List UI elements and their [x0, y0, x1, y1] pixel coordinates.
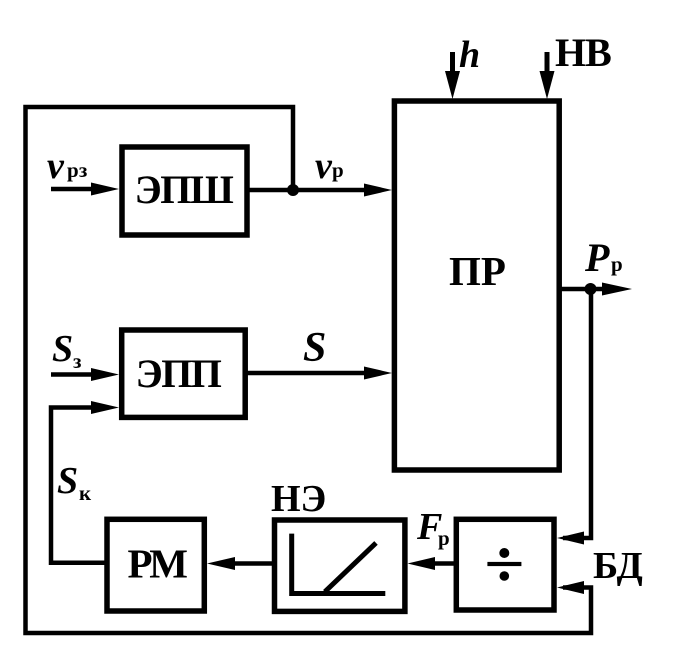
block U2 ЭПП — [122, 330, 246, 417]
wire S from ЭПП to ПР — [245, 367, 392, 380]
svg-text:P: P — [584, 235, 610, 280]
svg-text:v: v — [47, 145, 65, 187]
svg-text:p: p — [438, 526, 450, 550]
wire feedback loop vр to БД lower input — [26, 107, 592, 633]
svg-text:з: з — [73, 349, 81, 373]
label Fр — [416, 506, 450, 550]
junction node vр — [287, 184, 299, 196]
svg-text:S: S — [57, 460, 78, 502]
svg-text:ПР: ПР — [449, 248, 506, 294]
block U1 ЭПШ — [122, 147, 247, 235]
svg-text:S: S — [52, 328, 73, 370]
wire Pр down to БД upper input — [557, 289, 591, 545]
wire Sз input arrow — [51, 368, 119, 381]
svg-text:р: р — [611, 252, 623, 276]
svg-text:h: h — [459, 34, 480, 76]
block U6 БД divider — [456, 519, 554, 610]
svg-text:РМ: РМ — [128, 541, 188, 587]
svg-text:к: к — [79, 481, 92, 505]
svg-text:р: р — [332, 158, 344, 182]
label Sк — [57, 460, 92, 505]
wire Pр output with junction — [559, 283, 632, 296]
block U3 ПР — [394, 101, 559, 470]
wire vрз input arrow — [51, 183, 119, 196]
wire vр from ЭПШ to ПР with arrow — [247, 184, 392, 197]
svg-text:НЭ: НЭ — [271, 478, 326, 520]
block U5 НЭ nonlinear element — [275, 520, 405, 611]
label vр — [315, 145, 344, 187]
svg-text:S: S — [303, 325, 326, 371]
label Pр — [584, 235, 623, 280]
svg-text:ЭПШ: ЭПШ — [135, 167, 234, 212]
svg-text:ЭПП: ЭПП — [136, 351, 222, 396]
junction node Pр — [585, 283, 597, 295]
wire НЭ to РМ arrow — [207, 557, 272, 570]
label Sз — [52, 328, 81, 373]
label vрз — [47, 145, 87, 187]
svg-text:v: v — [315, 145, 333, 187]
svg-text:рз: рз — [67, 158, 87, 182]
wire НВ input arrow — [540, 52, 555, 99]
svg-text:БД: БД — [593, 545, 643, 587]
svg-text:НВ: НВ — [555, 30, 611, 75]
wire Sк feedback РМ to ЭПП — [51, 401, 119, 563]
wire БД to НЭ arrow Fр — [408, 557, 455, 570]
block U4 РМ — [107, 519, 204, 611]
wire h input arrow — [445, 52, 460, 99]
